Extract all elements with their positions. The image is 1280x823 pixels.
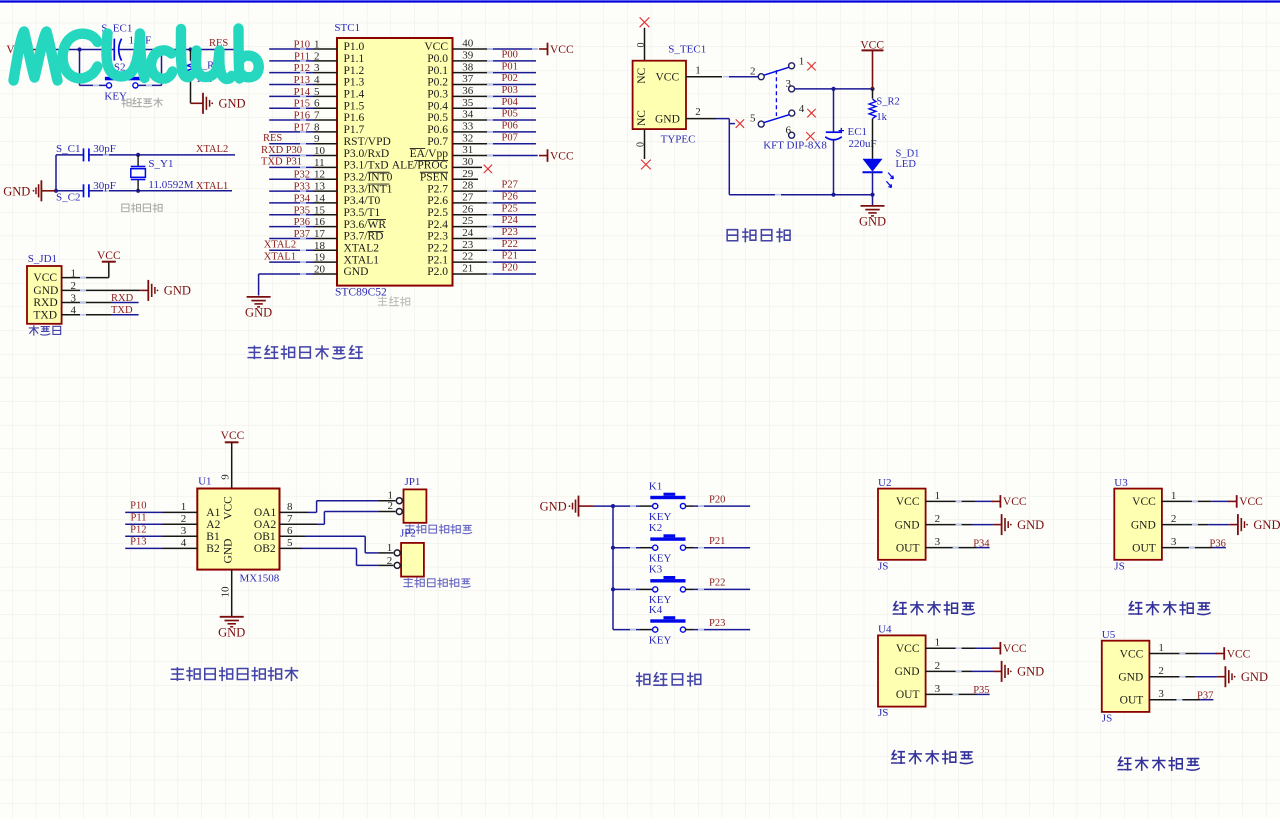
- svg-text:STC89C52: STC89C52: [335, 287, 387, 299]
- svg-text:P15: P15: [294, 99, 310, 110]
- svg-text:OB1: OB1: [254, 531, 276, 543]
- svg-text:2: 2: [695, 106, 701, 118]
- svg-text:6: 6: [287, 525, 293, 537]
- svg-text:VCC: VCC: [33, 272, 57, 284]
- svg-text:7: 7: [314, 110, 320, 122]
- svg-text:P25: P25: [502, 203, 518, 214]
- svg-text:1k: 1k: [876, 112, 887, 123]
- svg-text:6: 6: [314, 98, 320, 110]
- svg-text:24: 24: [462, 227, 474, 239]
- svg-text:P2.7: P2.7: [427, 183, 448, 195]
- svg-text:S_Y1: S_Y1: [148, 158, 173, 170]
- svg-text:P10: P10: [130, 500, 146, 511]
- svg-text:P10: P10: [294, 40, 310, 51]
- svg-text:2: 2: [1171, 513, 1177, 525]
- svg-text:TXD: TXD: [111, 305, 133, 316]
- svg-text:17: 17: [314, 228, 326, 240]
- svg-text:RES: RES: [263, 133, 282, 144]
- svg-text:27: 27: [462, 192, 474, 204]
- svg-text:6: 6: [786, 124, 792, 136]
- svg-text:GND: GND: [540, 499, 567, 513]
- svg-text:S_R2: S_R2: [876, 97, 899, 108]
- svg-text:P1.6: P1.6: [344, 112, 365, 124]
- svg-text:14: 14: [314, 192, 326, 204]
- svg-text:P23: P23: [502, 227, 518, 238]
- svg-text:GND: GND: [895, 519, 920, 531]
- svg-text:7: 7: [287, 513, 293, 525]
- svg-text:P0.1: P0.1: [427, 65, 448, 77]
- svg-text:VCC: VCC: [221, 430, 245, 442]
- svg-text:XTAL2: XTAL2: [196, 144, 228, 155]
- svg-text:11.0592M: 11.0592M: [148, 179, 193, 191]
- svg-text:P2.3: P2.3: [427, 231, 448, 243]
- svg-text:P0.2: P0.2: [427, 77, 448, 89]
- svg-text:P30: P30: [286, 145, 302, 156]
- svg-text:U2: U2: [878, 477, 891, 489]
- svg-text:3: 3: [786, 78, 792, 90]
- svg-text:P1.7: P1.7: [344, 124, 365, 136]
- svg-text:P0.4: P0.4: [427, 100, 448, 112]
- svg-text:P3.4/T0: P3.4/T0: [344, 195, 381, 207]
- svg-text:JS: JS: [1114, 560, 1124, 572]
- svg-text:1: 1: [1158, 642, 1164, 654]
- svg-text:P20: P20: [709, 494, 725, 505]
- svg-text:3: 3: [1158, 688, 1164, 700]
- svg-text:8: 8: [314, 121, 320, 133]
- svg-text:XTAL2: XTAL2: [264, 240, 296, 251]
- svg-text:RXD: RXD: [111, 293, 134, 304]
- svg-text:LED: LED: [896, 159, 917, 170]
- svg-text:P2.4: P2.4: [427, 219, 448, 231]
- svg-text:33: 33: [462, 120, 474, 132]
- svg-text:2: 2: [750, 65, 756, 77]
- svg-text:P07: P07: [502, 132, 518, 143]
- svg-text:JS: JS: [878, 560, 888, 572]
- svg-text:VCC: VCC: [656, 71, 680, 83]
- svg-text:GND: GND: [859, 214, 886, 228]
- svg-text:P35: P35: [294, 205, 310, 216]
- svg-text:P0.6: P0.6: [427, 124, 448, 136]
- svg-text:4: 4: [314, 74, 320, 86]
- svg-text:RST/VPD: RST/VPD: [344, 136, 391, 148]
- svg-text:P3.6/WR: P3.6/WR: [344, 219, 387, 231]
- svg-text:3: 3: [935, 683, 941, 695]
- svg-text:P0.7: P0.7: [427, 136, 448, 148]
- svg-text:GND: GND: [1118, 672, 1143, 684]
- svg-text:P22: P22: [709, 578, 725, 589]
- svg-text:P2.1: P2.1: [427, 254, 448, 266]
- svg-text:GND: GND: [245, 305, 272, 319]
- svg-text:P23: P23: [709, 618, 725, 629]
- svg-text:P2.6: P2.6: [427, 195, 448, 207]
- svg-text:KFT DIP-8X8: KFT DIP-8X8: [763, 139, 827, 151]
- svg-text:B1: B1: [206, 531, 220, 543]
- svg-text:K4: K4: [649, 604, 663, 616]
- svg-text:30pF: 30pF: [93, 180, 116, 192]
- svg-text:10: 10: [314, 145, 326, 157]
- svg-text:TYPEC: TYPEC: [661, 133, 696, 145]
- svg-text:STC1: STC1: [334, 22, 360, 34]
- svg-text:30pF: 30pF: [93, 143, 116, 155]
- svg-text:P0.3: P0.3: [427, 89, 448, 101]
- svg-text:40: 40: [462, 38, 474, 50]
- svg-text:8: 8: [287, 501, 293, 513]
- svg-text:RXD: RXD: [33, 297, 57, 309]
- svg-text:P21: P21: [709, 536, 725, 547]
- svg-text:K1: K1: [649, 480, 662, 492]
- svg-text:P2.5: P2.5: [427, 207, 448, 219]
- svg-text:VCC: VCC: [223, 496, 235, 520]
- svg-text:P13: P13: [294, 75, 310, 86]
- svg-text:9: 9: [220, 474, 232, 480]
- svg-text:2: 2: [181, 513, 187, 525]
- svg-text:29: 29: [462, 168, 474, 180]
- svg-text:GND: GND: [895, 666, 920, 678]
- svg-text:JS: JS: [1102, 713, 1112, 725]
- svg-text:5: 5: [750, 113, 756, 125]
- svg-text:P12: P12: [294, 63, 310, 74]
- svg-text:U3: U3: [1114, 477, 1128, 489]
- svg-text:RXD: RXD: [261, 145, 284, 156]
- svg-text:OB2: OB2: [254, 543, 276, 555]
- svg-text:P21: P21: [502, 251, 518, 262]
- svg-text:P3.0/RxD: P3.0/RxD: [344, 148, 390, 160]
- svg-text:P26: P26: [502, 192, 518, 203]
- svg-text:11: 11: [314, 157, 325, 169]
- svg-text:VCC: VCC: [550, 150, 574, 162]
- svg-text:P3.3/INT1: P3.3/INT1: [344, 183, 393, 195]
- svg-text:P37: P37: [294, 229, 310, 240]
- svg-text:TXD: TXD: [261, 157, 283, 168]
- svg-text:VCC: VCC: [896, 643, 920, 655]
- svg-text:GND: GND: [164, 284, 191, 298]
- svg-text:12: 12: [314, 169, 325, 181]
- svg-text:1: 1: [1171, 490, 1177, 502]
- svg-text:36: 36: [462, 85, 474, 97]
- svg-text:18: 18: [314, 240, 326, 252]
- svg-text:GND: GND: [655, 114, 680, 126]
- svg-text:3: 3: [935, 536, 941, 548]
- svg-text:S_TEC1: S_TEC1: [668, 43, 706, 55]
- svg-text:28: 28: [462, 180, 474, 192]
- svg-text:35: 35: [462, 97, 474, 109]
- svg-text:P1.2: P1.2: [344, 65, 365, 77]
- svg-text:2: 2: [1158, 665, 1164, 677]
- svg-text:JP1: JP1: [405, 476, 421, 488]
- svg-text:GND: GND: [218, 625, 245, 639]
- svg-text:P0.0: P0.0: [427, 53, 448, 65]
- svg-text:NC: NC: [636, 67, 648, 83]
- svg-text:1: 1: [935, 490, 941, 502]
- svg-text:P36: P36: [1210, 538, 1226, 549]
- svg-text:OA1: OA1: [254, 507, 277, 519]
- svg-text:P34: P34: [294, 193, 311, 204]
- svg-text:VCC: VCC: [1132, 496, 1156, 508]
- svg-text:S_JD1: S_JD1: [28, 253, 57, 265]
- svg-text:2: 2: [935, 660, 941, 672]
- svg-text:P03: P03: [502, 85, 518, 96]
- svg-text:P11: P11: [131, 512, 147, 523]
- svg-text:S_C1: S_C1: [56, 143, 80, 155]
- svg-text:31: 31: [462, 144, 473, 156]
- svg-text:1: 1: [799, 56, 805, 68]
- svg-text:P22: P22: [502, 239, 518, 250]
- svg-text:3: 3: [181, 525, 187, 537]
- svg-text:P3.7/RD: P3.7/RD: [344, 231, 384, 243]
- svg-text:1: 1: [935, 637, 941, 649]
- svg-text:P35: P35: [973, 685, 989, 696]
- svg-text:1: 1: [181, 501, 187, 513]
- svg-text:P04: P04: [502, 97, 519, 108]
- svg-text:VCC: VCC: [424, 41, 448, 53]
- svg-text:0: 0: [636, 43, 647, 48]
- svg-text:3: 3: [1171, 536, 1177, 548]
- svg-text:P14: P14: [294, 87, 311, 98]
- svg-text:GND: GND: [33, 285, 58, 297]
- svg-text:EC1: EC1: [848, 126, 868, 138]
- svg-text:P02: P02: [502, 73, 518, 84]
- svg-text:2: 2: [388, 500, 394, 512]
- svg-text:OUT: OUT: [1120, 695, 1144, 707]
- svg-text:KEY: KEY: [649, 634, 672, 646]
- svg-text:9: 9: [314, 133, 320, 145]
- svg-text:P24: P24: [502, 215, 519, 226]
- svg-text:2: 2: [314, 50, 320, 62]
- svg-text:5: 5: [314, 86, 320, 98]
- svg-text:VCC: VCC: [1003, 643, 1027, 655]
- svg-text:13: 13: [314, 181, 326, 193]
- svg-text:P20: P20: [502, 263, 518, 274]
- svg-text:1: 1: [695, 64, 701, 76]
- svg-text:XTAL1: XTAL1: [264, 251, 296, 262]
- svg-text:MX1508: MX1508: [240, 573, 280, 585]
- svg-text:GND: GND: [1131, 519, 1156, 531]
- svg-text:VCC: VCC: [550, 44, 574, 56]
- svg-text:P17: P17: [294, 122, 310, 133]
- svg-text:NC: NC: [636, 110, 648, 126]
- svg-text:P3.2/INT0: P3.2/INT0: [344, 171, 393, 183]
- svg-text:GND: GND: [223, 539, 235, 564]
- svg-text:P0.5: P0.5: [427, 112, 448, 124]
- svg-text:P13: P13: [130, 536, 146, 547]
- svg-text:OUT: OUT: [896, 689, 920, 701]
- svg-text:PSEN: PSEN: [420, 171, 449, 183]
- svg-text:OUT: OUT: [896, 542, 920, 554]
- svg-text:P1.3: P1.3: [344, 77, 365, 89]
- svg-text:P34: P34: [973, 538, 990, 549]
- svg-text:GND: GND: [219, 97, 246, 111]
- svg-text:30: 30: [462, 156, 474, 168]
- svg-text:ALE/PROG: ALE/PROG: [392, 160, 448, 172]
- svg-text:16: 16: [314, 216, 326, 228]
- svg-text:4: 4: [181, 537, 187, 549]
- svg-text:XTAL1: XTAL1: [196, 181, 228, 192]
- svg-text:VCC: VCC: [896, 496, 920, 508]
- svg-text:XTAL1: XTAL1: [344, 254, 380, 266]
- svg-text:P16: P16: [294, 111, 310, 122]
- svg-text:TXD: TXD: [33, 309, 57, 321]
- svg-text:1: 1: [387, 542, 393, 554]
- svg-text:XTAL2: XTAL2: [344, 242, 380, 254]
- svg-text:20: 20: [314, 263, 326, 275]
- svg-text:P32: P32: [294, 170, 310, 181]
- svg-text:VCC: VCC: [1003, 496, 1027, 508]
- svg-text:P2.0: P2.0: [427, 266, 448, 278]
- svg-text:10: 10: [220, 586, 232, 598]
- svg-text:JP2: JP2: [400, 527, 416, 539]
- svg-text:VCC: VCC: [1120, 648, 1144, 660]
- svg-text:P3.1/TxD: P3.1/TxD: [344, 160, 389, 172]
- svg-text:P11: P11: [294, 51, 310, 62]
- svg-text:GND: GND: [1241, 670, 1268, 684]
- svg-text:P3.5/T1: P3.5/T1: [344, 207, 381, 219]
- svg-text:34: 34: [462, 109, 474, 121]
- svg-text:OUT: OUT: [1132, 542, 1156, 554]
- svg-text:U1: U1: [198, 475, 211, 487]
- svg-text:25: 25: [462, 215, 474, 227]
- svg-text:EA/Vpp: EA/Vpp: [410, 148, 449, 160]
- svg-text:P1.0: P1.0: [344, 41, 365, 53]
- svg-text:S_C2: S_C2: [56, 192, 80, 204]
- svg-text:4: 4: [799, 103, 805, 115]
- svg-text:P1.4: P1.4: [344, 89, 365, 101]
- svg-text:2: 2: [387, 555, 393, 567]
- svg-text:P06: P06: [502, 120, 518, 131]
- svg-text:P1.1: P1.1: [344, 53, 365, 65]
- svg-text:21: 21: [462, 263, 473, 275]
- svg-text:B2: B2: [206, 543, 220, 555]
- svg-text:19: 19: [314, 252, 326, 264]
- svg-text:5: 5: [287, 537, 293, 549]
- svg-text:P27: P27: [502, 180, 518, 191]
- svg-text:P1.5: P1.5: [344, 100, 365, 112]
- svg-text:26: 26: [462, 203, 474, 215]
- svg-text:VCC: VCC: [1227, 648, 1251, 660]
- svg-text:GND: GND: [344, 266, 369, 278]
- svg-text:VCC: VCC: [97, 250, 121, 262]
- svg-text:37: 37: [462, 73, 474, 85]
- svg-text:P2.2: P2.2: [427, 242, 448, 254]
- svg-text:P37: P37: [1197, 691, 1213, 702]
- svg-text:A2: A2: [206, 519, 220, 531]
- svg-text:15: 15: [314, 204, 326, 216]
- svg-text:GND: GND: [1017, 665, 1044, 679]
- svg-text:P00: P00: [502, 49, 518, 60]
- svg-text:23: 23: [462, 239, 474, 251]
- svg-text:38: 38: [462, 61, 474, 73]
- svg-text:K3: K3: [649, 564, 663, 576]
- svg-text:P12: P12: [130, 524, 146, 535]
- svg-text:2: 2: [935, 513, 941, 525]
- svg-text:P36: P36: [294, 217, 310, 228]
- svg-text:K2: K2: [649, 522, 662, 534]
- svg-text:3: 3: [314, 62, 320, 74]
- svg-text:P05: P05: [502, 109, 518, 120]
- svg-text:22: 22: [462, 251, 473, 263]
- svg-text:A1: A1: [206, 507, 220, 519]
- svg-text:VCC: VCC: [1239, 496, 1263, 508]
- svg-text:JS: JS: [878, 707, 888, 719]
- svg-text:S_D1: S_D1: [896, 148, 920, 159]
- svg-text:32: 32: [462, 132, 473, 144]
- svg-text:P33: P33: [294, 182, 310, 193]
- svg-text:P31: P31: [286, 157, 302, 168]
- svg-text:GND: GND: [1253, 518, 1280, 532]
- svg-text:OA2: OA2: [254, 519, 277, 531]
- svg-text:GND: GND: [3, 185, 30, 199]
- svg-text:P01: P01: [502, 61, 518, 72]
- svg-text:1: 1: [314, 39, 320, 51]
- svg-text:39: 39: [462, 49, 474, 61]
- svg-text:U5: U5: [1102, 629, 1116, 641]
- svg-text:GND: GND: [1017, 518, 1044, 532]
- svg-text:U4: U4: [878, 624, 892, 636]
